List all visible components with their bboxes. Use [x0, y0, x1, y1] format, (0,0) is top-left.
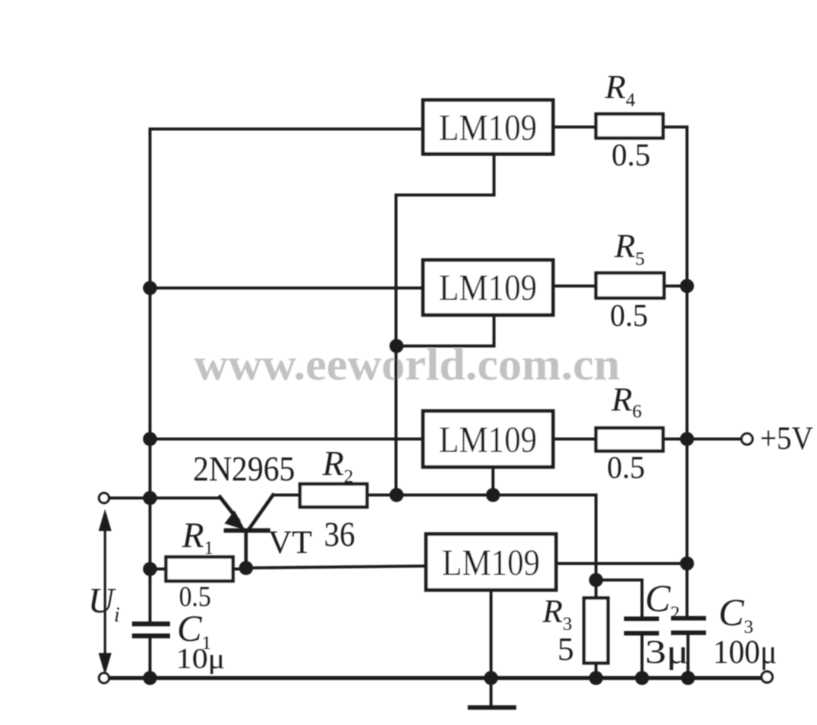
wire: bus to R1: [150, 568, 166, 571]
svg-text:R2: R2: [322, 444, 354, 488]
wire: adj bus horizontal: [396, 494, 596, 497]
wire: top bus from left rail to U1 input: [150, 128, 423, 131]
wire: U3 adj pin down: [492, 467, 495, 495]
wire: U1 output to R4: [553, 126, 596, 129]
resistor R2: [300, 484, 367, 507]
svg-text:10μ: 10μ: [176, 643, 225, 675]
label C2: [645, 578, 680, 624]
wire: R6 to right bus: [663, 438, 687, 441]
svg-text:36: 36: [324, 515, 355, 554]
node: U2 adj / adj bus: [390, 339, 404, 353]
label LM109 (U1): [439, 108, 537, 149]
wire: C1 bottom lead: [149, 638, 152, 678]
value 10u (C1): [176, 643, 225, 675]
wire: left bus to U2 input: [150, 287, 423, 290]
label R5: [614, 228, 645, 270]
wire: left input bus vertical: [149, 129, 152, 622]
wire: R5 to right bus: [664, 285, 687, 288]
capacitor C3: [671, 616, 706, 635]
wire: R3 bottom lead: [595, 663, 598, 678]
label R3: [542, 594, 573, 635]
node: U4 gnd / rail: [484, 671, 498, 685]
node: rail / left bus: [143, 671, 157, 685]
svg-text:+5V: +5V: [760, 421, 813, 457]
label LM109 (U2): [439, 268, 537, 309]
bottom rail: [109, 676, 762, 680]
label R4: [604, 69, 636, 111]
label R1: [181, 515, 214, 559]
node: U3 adj / adj bus: [486, 488, 500, 502]
wire: U2 adj pin down and left: [396, 315, 494, 346]
svg-text:R5: R5: [614, 228, 645, 270]
wire: left bus to U3 input: [150, 438, 423, 441]
capacitor C1: [132, 622, 170, 639]
wire: R1 right to base node: [233, 568, 246, 571]
wire: C3 bottom lead: [687, 635, 690, 678]
wire: R3 top lead: [595, 580, 598, 598]
regulator U3 LM109: [423, 411, 553, 467]
value 5 (R3): [558, 632, 575, 668]
node: U4 output / right bus: [680, 557, 694, 571]
label C3: [719, 592, 754, 638]
svg-text:R6: R6: [611, 382, 642, 423]
label +5V: [760, 421, 813, 457]
svg-text:3μ: 3μ: [645, 634, 689, 671]
regulator U1 LM109: [423, 100, 553, 154]
value 0.5 (R6): [607, 449, 645, 485]
wire: U4 gnd pin down: [490, 590, 493, 706]
node: R2 / adj bus: [390, 488, 404, 502]
wire: C2 bottom lead: [641, 636, 644, 679]
transistor VT 2N2965: [220, 495, 273, 568]
svg-text:R4: R4: [604, 69, 636, 111]
wire: U4 output to right bus: [556, 562, 687, 565]
value 0.5 (R1): [179, 581, 211, 613]
wire: U2 output to R5: [553, 285, 596, 288]
node: C2 / rail: [635, 671, 649, 685]
wire: C2 top lead: [596, 580, 642, 617]
node: C3 / rail: [681, 671, 695, 685]
svg-text:C3: C3: [719, 592, 754, 638]
node: R1 right / VT base: [239, 561, 253, 575]
wire: R2 to adj node: [367, 494, 396, 497]
label 2N2965: [193, 450, 295, 489]
svg-text:LM109: LM109: [439, 268, 537, 309]
watermark: [194, 339, 620, 390]
label R2: [322, 444, 354, 488]
input terminal +: [99, 493, 109, 503]
wire: U3 output to R6: [553, 438, 596, 441]
wire: right output bus vertical: [686, 127, 689, 616]
node: R5 / right bus: [680, 279, 694, 293]
node: R3 / rail: [589, 671, 603, 685]
input terminal -: [99, 673, 109, 683]
wire: input terminal to emitter: [109, 497, 220, 500]
node: left bus / U3 input: [143, 432, 157, 446]
label VT: [268, 525, 312, 561]
wire: R4 to right bus corner: [663, 126, 687, 129]
node: left bus / input terminal wire: [143, 491, 157, 505]
resistor R1: [166, 557, 233, 581]
label C1: [177, 609, 211, 654]
node: R6 / right bus: [680, 432, 694, 446]
svg-text:0.5: 0.5: [607, 449, 645, 485]
svg-text:0.5: 0.5: [610, 297, 648, 333]
resistor R3: [584, 598, 608, 663]
value 0.5 (R5): [610, 297, 648, 333]
svg-text:Ui: Ui: [88, 581, 120, 627]
resistor R4: [596, 114, 663, 138]
wire: VT collector to R2: [273, 494, 300, 497]
regulator U2 LM109: [423, 260, 553, 315]
node: left bus / R1 left: [143, 562, 157, 576]
node: left bus / U2 input: [143, 281, 157, 295]
svg-text:5: 5: [558, 632, 575, 668]
svg-text:LM109: LM109: [439, 420, 537, 461]
regulator U4 LM109: [426, 534, 556, 590]
svg-text:2N2965: 2N2965: [193, 450, 295, 489]
svg-text:LM109: LM109: [442, 543, 540, 584]
wire: adj bus down right side: [595, 495, 598, 580]
value 0.5 (R4): [612, 137, 651, 173]
value 36 (R2): [324, 515, 355, 554]
value 100u (C3): [713, 634, 777, 671]
resistor R6: [596, 428, 663, 451]
terminal +5V: [742, 434, 753, 445]
capacitor C2: [624, 617, 659, 636]
svg-text:R1: R1: [181, 515, 214, 559]
value 3u (C2): [645, 634, 689, 671]
output terminal - (bottom right): [762, 672, 773, 683]
label R6: [611, 382, 642, 423]
wire: right bus to +5V terminal: [687, 438, 741, 441]
resistor R5: [596, 273, 664, 298]
ground: [470, 705, 514, 710]
label Ui: [88, 581, 120, 627]
label LM109 (U3): [439, 420, 537, 461]
node: adj bus / R3 / C2: [589, 573, 603, 587]
wire: adj bus vertical: [395, 195, 398, 495]
svg-text:R3: R3: [542, 594, 573, 635]
arrow Ui: [99, 509, 112, 675]
svg-text:0.5: 0.5: [612, 137, 651, 173]
svg-text:VT: VT: [268, 525, 312, 561]
wire: U1 adj pin down and left: [396, 154, 494, 195]
svg-text:100μ: 100μ: [713, 634, 777, 671]
wire: base node to U4 input: [246, 566, 426, 568]
label LM109 (U4): [442, 543, 540, 584]
svg-text:LM109: LM109: [439, 108, 537, 149]
